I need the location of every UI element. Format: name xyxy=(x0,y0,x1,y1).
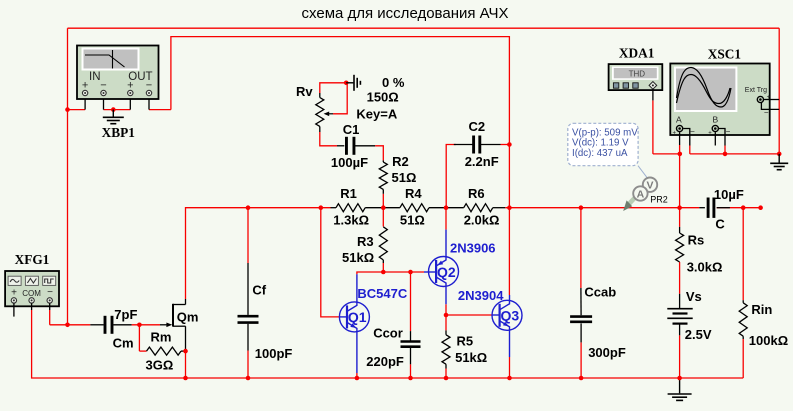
probe readout box xyxy=(568,123,648,178)
svg-text:схема для исследования АЧХ: схема для исследования АЧХ xyxy=(302,5,509,22)
wire xyxy=(679,262,681,294)
label 2.5V xyxy=(685,327,712,342)
wire xyxy=(67,28,69,325)
wire xyxy=(724,146,726,154)
label 2.0k xyxy=(464,212,500,227)
wire xyxy=(742,339,744,378)
label Q2 xyxy=(437,264,456,280)
instrument XBP1 bode plotter xyxy=(77,46,159,100)
svg-text:Key=A: Key=A xyxy=(356,107,397,122)
transistor Q2 xyxy=(424,230,459,305)
capacitor Cm xyxy=(90,316,131,334)
label BC547C xyxy=(357,286,407,301)
resistor Rs xyxy=(676,227,684,262)
svg-text:Cf: Cf xyxy=(252,283,266,298)
svg-text:XFG1: XFG1 xyxy=(15,252,50,267)
svg-text:R1: R1 xyxy=(340,186,357,201)
wire xyxy=(247,208,249,263)
svg-text:Q2: Q2 xyxy=(437,264,456,280)
svg-text:R2: R2 xyxy=(392,154,409,169)
resistor R4 xyxy=(383,204,446,212)
label Qm xyxy=(177,309,199,324)
svg-text:Ccab: Ccab xyxy=(584,285,616,300)
wire xyxy=(104,109,131,111)
wire xyxy=(321,208,339,317)
svg-text:Qm: Qm xyxy=(177,309,199,324)
svg-text:R3: R3 xyxy=(357,234,374,249)
transistor Qm xyxy=(160,299,186,351)
wire xyxy=(505,207,699,209)
label 2N3906 xyxy=(450,241,496,256)
wire xyxy=(679,335,681,378)
label R1 xyxy=(340,186,357,201)
wire xyxy=(580,342,582,378)
svg-text:BC547C: BC547C xyxy=(357,286,407,301)
svg-text:+: + xyxy=(11,288,17,299)
svg-text:Q1: Q1 xyxy=(348,309,367,325)
label 0% xyxy=(382,75,405,90)
svg-text:2.5V: 2.5V xyxy=(685,327,712,342)
svg-text:XSC1: XSC1 xyxy=(708,47,741,62)
label Ccor xyxy=(373,326,403,341)
svg-text:Rm: Rm xyxy=(151,329,172,344)
wire xyxy=(382,194,384,208)
label 220pF xyxy=(366,354,404,369)
resistor R6 xyxy=(446,204,505,212)
svg-text:7pF: 7pF xyxy=(114,307,137,322)
label 1.3k xyxy=(333,212,369,227)
wire xyxy=(356,373,358,378)
svg-text:I(dc): 437 uA: I(dc): 437 uA xyxy=(572,148,628,159)
label Rm xyxy=(151,329,172,344)
label Vs xyxy=(686,289,702,304)
svg-text:R6: R6 xyxy=(468,186,485,201)
wire xyxy=(501,144,510,146)
wire xyxy=(68,109,86,111)
svg-text:220pF: 220pF xyxy=(366,354,404,369)
svg-text:2.2nF: 2.2nF xyxy=(465,154,499,169)
wire xyxy=(138,325,140,351)
resistor Rm xyxy=(147,347,186,355)
wire xyxy=(247,351,249,379)
wire xyxy=(171,37,510,295)
svg-text:C: C xyxy=(715,216,725,231)
label Q1 xyxy=(348,309,367,325)
svg-text:A: A xyxy=(676,115,682,125)
svg-text:THD: THD xyxy=(629,70,646,79)
svg-text:Cm: Cm xyxy=(113,336,134,351)
svg-text:300pF: 300pF xyxy=(588,345,626,360)
ground xyxy=(103,107,124,123)
wire xyxy=(68,27,780,29)
label Rv xyxy=(296,84,313,99)
capacitor C2 xyxy=(454,136,501,154)
svg-text:51kΩ: 51kΩ xyxy=(455,350,487,365)
svg-text:A: A xyxy=(637,188,645,200)
wire xyxy=(410,272,412,331)
label XBP1 xyxy=(102,125,135,140)
svg-text:2N3906: 2N3906 xyxy=(450,241,496,256)
probe PR2 xyxy=(623,178,657,212)
svg-text:100µF: 100µF xyxy=(331,155,368,170)
svg-text:51Ω: 51Ω xyxy=(400,212,425,227)
wire xyxy=(382,263,384,272)
label 300pF xyxy=(588,345,626,360)
label R6 xyxy=(468,186,485,201)
label C1 xyxy=(343,122,360,137)
label Cm xyxy=(113,336,134,351)
instrument XSC1 oscilloscope xyxy=(670,64,779,146)
svg-text:Ext Trg: Ext Trg xyxy=(745,87,767,94)
label R4 xyxy=(405,186,422,201)
label PR2 xyxy=(650,195,668,205)
wire xyxy=(446,145,456,208)
svg-text:100pF: 100pF xyxy=(255,346,293,361)
title xyxy=(302,5,509,22)
wire xyxy=(357,272,424,274)
label XDA1 xyxy=(619,46,654,61)
label XSC1 xyxy=(708,47,741,62)
label 51 R4 xyxy=(400,212,425,227)
wire xyxy=(445,369,447,379)
label 10uF xyxy=(714,187,744,202)
label 7pF xyxy=(114,307,137,322)
capacitor C1 xyxy=(337,137,375,155)
label Rin xyxy=(751,302,772,317)
svg-text:Rv: Rv xyxy=(296,84,313,99)
wire xyxy=(653,153,680,155)
svg-text:1.3kΩ: 1.3kΩ xyxy=(333,212,369,227)
svg-text:100kΩ: 100kΩ xyxy=(749,333,788,348)
label 3.0k xyxy=(687,260,723,275)
label 51 R2 xyxy=(392,170,417,185)
capacitor Cf xyxy=(238,263,259,351)
wire xyxy=(410,364,412,378)
label C xyxy=(715,216,725,231)
svg-text:XDA1: XDA1 xyxy=(619,46,654,61)
instrument XDA1 distortion analyzer xyxy=(609,64,663,100)
wire xyxy=(679,154,681,227)
wire xyxy=(679,145,681,154)
label Cf xyxy=(252,283,266,298)
wire xyxy=(320,83,347,114)
svg-text:R5: R5 xyxy=(457,334,474,349)
svg-text:−: − xyxy=(690,127,695,136)
capacitor Ccor xyxy=(401,331,421,364)
svg-text:IN: IN xyxy=(89,71,101,83)
label Ccab xyxy=(584,285,616,300)
svg-text:Ccor: Ccor xyxy=(373,326,403,341)
label R5 xyxy=(457,334,474,349)
capacitor C xyxy=(699,198,730,218)
potentiometer Rv xyxy=(316,93,333,132)
svg-text:0 %: 0 % xyxy=(382,75,405,90)
label Rs xyxy=(688,233,705,248)
wire xyxy=(185,351,187,378)
wire xyxy=(446,304,492,330)
svg-text:+: + xyxy=(708,131,712,137)
svg-text:−: − xyxy=(726,127,731,136)
svg-text:C1: C1 xyxy=(343,122,360,137)
svg-text:C2: C2 xyxy=(469,119,486,134)
wire xyxy=(445,208,447,230)
wire xyxy=(49,310,51,325)
label 150 xyxy=(367,90,399,105)
wire xyxy=(50,324,91,326)
wire xyxy=(742,208,744,301)
svg-text:Rin: Rin xyxy=(751,302,772,317)
wire xyxy=(690,153,779,155)
resistor R1 xyxy=(331,204,384,212)
resistor R5 xyxy=(442,330,450,368)
ground xyxy=(770,152,788,170)
svg-text:−: − xyxy=(47,287,53,298)
wire xyxy=(778,28,780,154)
ground xyxy=(344,75,360,91)
label 100k xyxy=(749,333,788,348)
wire xyxy=(382,208,384,227)
label KeyA xyxy=(356,107,397,122)
label 2.2nF xyxy=(465,154,499,169)
label 2N3904 xyxy=(458,288,504,303)
svg-text:+: + xyxy=(673,131,677,137)
svg-text:3.0kΩ: 3.0kΩ xyxy=(687,260,723,275)
svg-text:Vs: Vs xyxy=(686,289,702,304)
label 3G xyxy=(146,358,174,373)
capacitor Ccab xyxy=(570,288,592,342)
svg-text:Rs: Rs xyxy=(688,233,705,248)
wire xyxy=(132,324,160,326)
label 100uF xyxy=(331,155,368,170)
resistor Rin xyxy=(739,300,747,339)
wire xyxy=(717,207,761,209)
wire xyxy=(85,96,149,110)
transistor Q3 xyxy=(492,295,522,357)
svg-text:3GΩ: 3GΩ xyxy=(146,358,174,373)
svg-text:XBP1: XBP1 xyxy=(102,125,135,140)
wire xyxy=(580,208,582,288)
svg-text:Q3: Q3 xyxy=(501,307,520,323)
wire xyxy=(186,208,331,299)
svg-text:COM: COM xyxy=(22,289,41,298)
wire xyxy=(689,146,691,154)
svg-text:B: B xyxy=(712,115,718,125)
instrument XFG1 function generator xyxy=(5,271,59,317)
resistor R3 xyxy=(379,227,387,263)
battery Vs xyxy=(667,294,692,336)
svg-text:R4: R4 xyxy=(405,186,422,201)
svg-text:PR2: PR2 xyxy=(650,195,668,205)
transistor Q1 xyxy=(339,274,369,373)
label Q3 xyxy=(501,307,520,323)
wire xyxy=(320,132,337,146)
wire xyxy=(375,146,383,161)
wire xyxy=(139,350,146,352)
label 51k R5 xyxy=(455,350,487,365)
label 51k R3 xyxy=(342,250,374,265)
svg-text:51kΩ: 51kΩ xyxy=(342,250,374,265)
label XFG1 xyxy=(15,252,50,267)
label 100pF xyxy=(255,346,293,361)
label C2 xyxy=(469,119,486,134)
svg-text:150Ω: 150Ω xyxy=(367,90,399,105)
wire xyxy=(509,357,511,378)
wire xyxy=(149,109,171,111)
resistor R2 xyxy=(379,160,387,193)
label R3 xyxy=(357,234,374,249)
ground xyxy=(668,378,692,400)
svg-text:51Ω: 51Ω xyxy=(392,170,417,185)
svg-text:2N3904: 2N3904 xyxy=(458,288,504,303)
wire xyxy=(652,100,654,153)
wire xyxy=(32,310,744,378)
svg-text:2.0kΩ: 2.0kΩ xyxy=(464,212,500,227)
svg-text:10µF: 10µF xyxy=(714,187,744,202)
label R2 xyxy=(392,154,409,169)
